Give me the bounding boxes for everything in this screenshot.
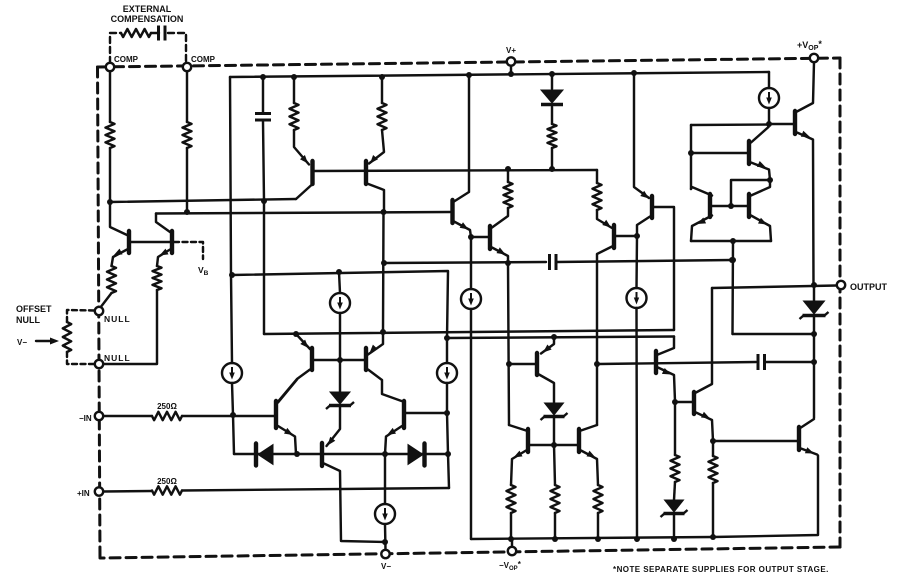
node [634,233,640,239]
node [631,70,637,76]
wire Q11 emitter [278,426,296,454]
node [506,361,512,367]
wire Q17 collector [658,337,674,355]
node [381,260,387,266]
wire Q13 collector [324,464,385,543]
wire [339,360,341,392]
node [293,331,299,337]
wire Q20 collector [751,127,769,143]
svg-text:NULL: NULL [104,314,131,324]
wire [384,454,386,503]
wire Q19 collector [797,62,814,112]
node [381,209,387,215]
node [291,74,297,80]
node [382,451,388,457]
svg-text:+IN: +IN [77,489,90,498]
wire [674,402,676,455]
resistor R8 [107,266,116,293]
svg-text:V−: V− [17,338,27,347]
node [549,166,555,172]
wire bottom rail [471,456,818,540]
current source I5 (tail) [375,504,395,524]
node [728,203,734,209]
wire [186,148,188,212]
resistor R12 [507,485,516,513]
dashed IC boundary left edge [98,67,101,558]
node [379,74,385,80]
wire Q20 base [693,152,747,154]
wire [293,77,295,103]
wire Q11 collector [278,380,297,403]
svg-text:NULL: NULL [16,315,40,325]
wire Q21 emitter [691,216,712,242]
node [811,331,817,337]
wire [813,317,815,419]
wire [182,488,449,491]
svg-text:−IN: −IN [79,414,92,423]
wire Q15 collector [509,425,526,431]
wire [673,515,675,539]
resistor R10 250ohm -IN [152,412,182,420]
node [260,74,266,80]
wire Q18 collector [696,288,712,393]
transistor Q9 (input buffer PNP left) [310,348,314,370]
wire y273 bus [232,271,448,338]
current source I7 [461,289,481,309]
wire Q18 emitter [696,413,713,442]
dashed IC boundary bottom edge [100,547,840,558]
resistor R13 [594,485,603,513]
transistor Q10 (input buffer PNP right) [364,348,368,370]
wire [100,293,112,308]
node [552,536,558,542]
external compensation dashed box left leg [110,33,121,63]
wire [327,407,341,446]
node [766,121,772,127]
wire Q8 base [654,207,674,330]
wire Q3 collector [296,185,312,200]
wire Q17 base rail [599,362,756,364]
terminal COMP left [106,63,114,71]
wire V+ rail [230,72,769,77]
node [107,199,113,205]
transistor Q7 (PNP level shift) [612,225,616,248]
wire [109,148,111,202]
node [444,410,450,416]
wire [294,130,309,165]
wire [384,262,546,263]
wire Q2 emitter [157,250,170,267]
wire Q23 emitter [801,449,817,455]
wire [339,272,340,293]
wire Q9 collector [279,370,311,402]
wire y202 bus [110,199,296,202]
wire Q19 base [769,123,793,125]
potentiometer R_null [63,322,71,352]
wire [553,418,555,445]
node [508,71,514,77]
wire [551,107,553,125]
wire [446,338,448,363]
node [710,438,716,444]
wire y170 corner to R7 [596,170,598,183]
current source I6 [627,288,647,308]
wire [731,241,734,334]
wire [768,72,770,88]
resistor R3 [290,103,299,130]
node [466,72,472,78]
wire Q23 collector [801,419,814,428]
node [730,238,736,244]
wire bias bus lower [447,337,674,339]
wire Q14 emitter [541,337,554,354]
svg-text:COMP: COMP [114,55,139,64]
svg-text:V−: V− [381,562,391,571]
resistor R6 [504,182,513,208]
wire -IN lead [103,415,152,417]
wire Q6 emitter [492,248,508,264]
current source I1 [759,88,779,108]
node [337,357,343,363]
resistor R14 [551,485,560,513]
diode D3 (cross diode left) [256,444,273,466]
wire Q8 emitter from rail [634,73,649,198]
wire [446,383,448,413]
svg-text:EXTERNAL: EXTERNAL [123,4,172,14]
resistor R_ext external compensation [121,29,151,37]
terminal NULL lower [95,360,103,368]
wire y180 [731,180,770,206]
node [184,209,190,215]
node [594,361,600,367]
wire [263,201,265,334]
wire Q12 base [406,412,447,414]
wire [381,77,383,103]
svg-text:V+: V+ [506,46,516,55]
wire [813,285,815,301]
transistor Q23 (output NPN bottom) [797,427,801,450]
transistor Q3 (mirror PNP left) [310,161,314,184]
wire Q1 collector [110,202,127,235]
wire [470,309,472,539]
wire [733,333,815,335]
resistor R1 (COMP pin load) [106,122,115,148]
transistor Q16 (mirror NPN right) [577,429,581,452]
wire [635,308,638,539]
wire input diode rail y454 [234,453,448,455]
wire Q22 collector [751,180,770,196]
svg-text:*NOTE SEPARATE SUPPLIES FOR OU: *NOTE SEPARATE SUPPLIES FOR OUTPUT STAGE… [613,565,829,574]
terminal V+ [507,57,515,65]
wire [233,415,234,454]
wire [597,513,599,539]
resistor R11 250ohm +IN [152,486,182,494]
wire Q22 emitter [751,216,771,242]
node [551,442,557,448]
transistor Q6 (2nd stage NPN) [488,226,492,249]
wire Q16 collector [581,425,597,431]
wire y441 rail [713,440,797,442]
dashed null link top [67,310,95,322]
terminal -IN [95,412,103,420]
node [729,257,735,263]
capacitor C3 (compensation) [550,254,557,270]
zener D2 (input clamp) [326,392,354,409]
node [688,150,694,156]
wire [556,260,732,262]
node [767,177,773,183]
svg-text:250Ω: 250Ω [157,402,177,411]
wire mirror base rail y170 [314,170,597,171]
node [505,260,511,266]
wire Q19 emitter [797,133,814,286]
wire Q12 emitter [385,426,402,454]
wire [231,275,232,363]
transistor Q19 (output NPN top) [793,111,797,134]
wire [712,441,714,456]
node [508,536,514,542]
resistor R16 [709,456,718,483]
wire [263,122,264,202]
node [444,335,450,341]
dashed VB lead [174,242,203,259]
wire [712,483,714,537]
terminal NULL upper [95,307,103,315]
terminal OUTPUT [837,281,845,289]
wire [384,525,387,550]
diode D4 (cross diode right) [408,444,425,466]
wire Q7 base [616,235,637,237]
wire [232,383,233,415]
transistor Q14 (PNP cascode) [535,353,539,375]
node [595,536,601,542]
wire [262,77,264,112]
wire [182,415,274,417]
capacitor C4 (output comp) [758,354,765,370]
transistor Q5 (2nd stage input NPN) [450,200,454,223]
wire [551,74,553,89]
node [549,71,555,77]
wire [510,513,512,539]
wire center PNP base rail [314,359,364,361]
wire Q16 emitter [581,451,598,486]
node [551,334,557,340]
wire [369,130,384,164]
wire Q20 emitter [751,163,770,181]
terminal COMP right [183,63,191,71]
wire [511,539,513,547]
node [811,359,817,365]
wire Q6 collector [492,208,508,228]
wire y241 emitter rail [691,240,771,242]
wire bias bus upper [264,330,674,334]
wire Q1-Q2 base rail [131,241,170,243]
wire [470,237,472,289]
wire [765,361,814,363]
svg-text:NULL: NULL [104,353,131,363]
node [468,234,474,240]
zener D7 (output) [800,301,829,319]
wire [103,290,157,364]
resistor R2 [183,122,192,148]
transistor Q17 (driver NPN) [654,351,658,373]
wire [109,71,111,122]
node [261,198,267,204]
external compensation dashed box right leg [168,33,186,63]
wire Q5 emitter [454,222,471,238]
wire [635,236,638,288]
node [730,257,736,263]
terminal -VOP [508,547,516,555]
transistor Q1 (offset PNP left) [127,231,131,253]
transistor Q18 (pulldown NPN) [692,392,696,414]
current source I4 [437,363,457,383]
wire [186,71,188,122]
resistor R9 [153,266,162,290]
wire Q1 emitter [112,250,128,267]
wire Q7 collector [597,247,612,426]
wire [597,210,612,228]
wire [554,513,556,539]
transistor Q2 (offset PNP right) [170,231,174,253]
node [505,166,511,172]
terminal V- [381,550,389,558]
dashed IC boundary top edge [98,58,841,67]
wire [156,214,170,233]
wire [510,66,512,74]
node [230,412,236,418]
wire OUTPUT lead [712,286,837,289]
wire +IN lead [103,490,152,493]
wire Q14 collector [539,375,554,404]
resistor R15 [671,455,680,482]
transistor Q11 (-IN input) [274,401,278,428]
svg-text:COMPENSATION: COMPENSATION [111,14,184,24]
node [382,539,388,545]
wire Q17 emitter [658,368,675,402]
transistor Q22 (mirror NPN diode-connected) [747,194,751,217]
capacitor C2 [255,114,271,121]
wire Q21 collector [691,187,712,196]
resistor R5 [548,124,557,148]
zener D5 [541,403,568,420]
terminal +VOP [810,54,818,62]
wire [768,108,770,124]
wire Q5 collector [454,75,469,202]
node [445,451,451,457]
dashed null link bottom [67,352,95,364]
wire mirror base rail [530,444,578,446]
wire Q14 base [509,363,535,365]
node [671,536,677,542]
node [380,329,386,335]
wire Q6 base [471,236,488,238]
wire Q18 base [675,401,692,403]
wiper arrow [36,340,55,342]
wire [554,445,555,485]
wire [551,148,553,169]
transistor Q21 (mirror NPN) [708,194,712,217]
wire Q10 collector [368,370,402,402]
transistor Q20 (Darlington NPN) [747,141,751,164]
wire [151,32,159,34]
transistor Q4 (mirror PNP right) [364,161,368,184]
svg-text:250Ω: 250Ω [157,477,177,486]
diode D1 (V+ chain) [541,90,563,105]
capacitor C_ext external compensation [159,26,166,41]
wire [674,482,675,500]
node [672,399,678,405]
transistor Q13 (center clamp) [320,443,324,466]
current source I2 [330,293,350,313]
wire [230,77,231,275]
wire Q8 collector [637,217,650,237]
wire Q4 collector [367,184,384,213]
wire [507,170,509,182]
wire Q21 base rail [712,205,747,207]
resistor R4 [378,103,387,130]
wire Q9 emitter [296,334,310,349]
dashed IC boundary right edge [839,58,842,547]
transistor Q15 (mirror NPN left) [526,429,530,452]
svg-text:COMP: COMP [191,55,216,64]
wire y212 bus (first stage output) [156,212,450,214]
wire [508,263,509,425]
zener D6 [661,500,688,517]
wire [339,313,341,360]
node [710,534,716,540]
node [336,269,342,275]
node [294,451,300,457]
svg-text:OFFSET: OFFSET [16,304,52,314]
node [229,272,235,278]
resistor R7 [593,183,602,210]
wire [690,125,692,189]
node [811,282,817,288]
node [634,536,640,542]
transistor Q12 (+IN input) [402,401,406,428]
wire Q10 emitter [368,332,383,355]
current source I3 [222,363,242,383]
wire [447,413,449,488]
wire [382,212,385,332]
transistor Q8 (PNP) [650,196,654,218]
wire y125 [691,123,769,126]
svg-text:OUTPUT: OUTPUT [850,282,888,292]
terminal +IN [95,487,103,495]
wire Q15 emitter [511,451,526,486]
